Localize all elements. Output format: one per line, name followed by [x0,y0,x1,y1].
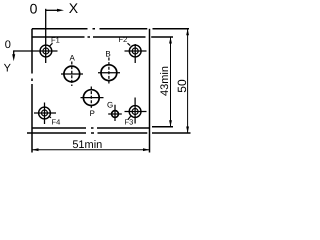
svg-text:F2: F2 [119,35,128,44]
svg-text:G: G [107,101,113,110]
svg-text:F4: F4 [52,117,61,126]
svg-text:P: P [90,109,95,118]
svg-text:0: 0 [5,39,11,51]
svg-text:43min: 43min [159,66,171,96]
svg-text:A: A [70,54,76,63]
svg-text:B: B [105,50,110,59]
svg-text:51min: 51min [72,139,102,151]
svg-text:50: 50 [175,79,189,93]
svg-text:X: X [69,0,79,16]
svg-text:0: 0 [30,0,38,16]
svg-text:F1: F1 [51,36,60,45]
svg-text:Y: Y [4,63,12,75]
svg-text:F3: F3 [125,117,134,126]
